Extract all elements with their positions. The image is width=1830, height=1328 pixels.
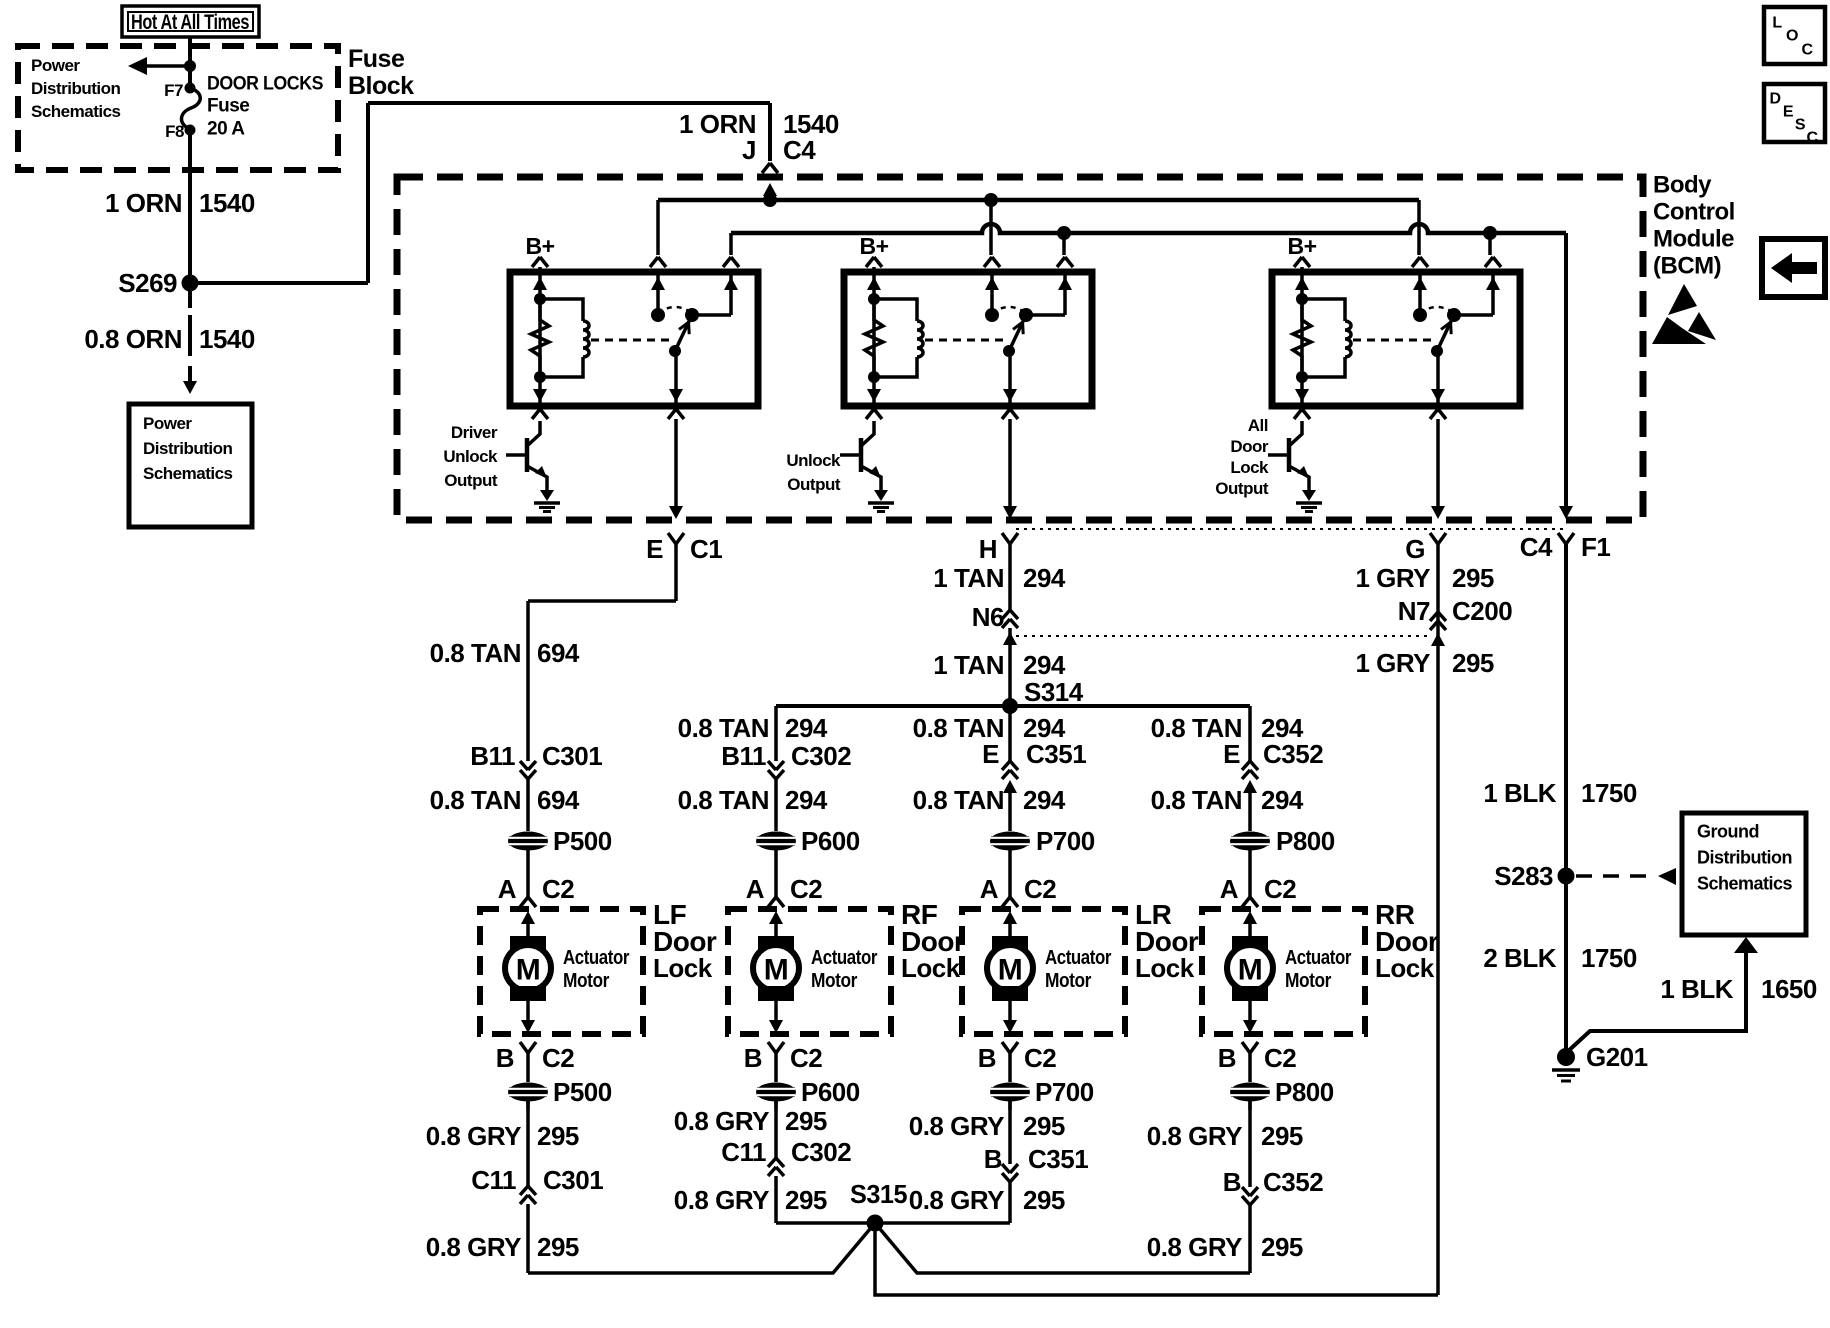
svg-text:Distribution: Distribution bbox=[143, 439, 232, 458]
svg-text:694: 694 bbox=[537, 785, 580, 815]
svg-text:C2: C2 bbox=[1024, 874, 1056, 904]
svg-text:1 BLK: 1 BLK bbox=[1483, 778, 1556, 808]
svg-text:S315: S315 bbox=[850, 1179, 907, 1209]
svg-text:295: 295 bbox=[1023, 1185, 1065, 1215]
svg-text:Schematics: Schematics bbox=[31, 102, 121, 121]
svg-text:295: 295 bbox=[537, 1232, 579, 1262]
svg-text:294: 294 bbox=[1023, 785, 1066, 815]
svg-text:295: 295 bbox=[785, 1106, 827, 1136]
svg-text:C4: C4 bbox=[1520, 532, 1553, 562]
svg-text:C2: C2 bbox=[1024, 1043, 1056, 1073]
svg-text:Motor: Motor bbox=[563, 970, 610, 992]
svg-text:Body: Body bbox=[1653, 171, 1712, 198]
svg-text:L: L bbox=[1772, 15, 1782, 32]
svg-text:Output: Output bbox=[787, 475, 841, 494]
svg-text:0.8 TAN: 0.8 TAN bbox=[678, 785, 769, 815]
svg-text:A: A bbox=[498, 874, 517, 904]
svg-text:294: 294 bbox=[785, 713, 828, 743]
svg-text:B: B bbox=[1218, 1043, 1236, 1073]
svg-text:Actuator: Actuator bbox=[563, 947, 630, 969]
svg-text:N6: N6 bbox=[972, 602, 1004, 632]
svg-text:B: B bbox=[978, 1043, 996, 1073]
svg-text:1 TAN: 1 TAN bbox=[933, 563, 1004, 593]
svg-text:B: B bbox=[984, 1144, 1002, 1174]
svg-text:S283: S283 bbox=[1494, 861, 1553, 891]
svg-text:1 GRY: 1 GRY bbox=[1355, 648, 1430, 678]
svg-text:C302: C302 bbox=[791, 1137, 851, 1167]
svg-text:B11: B11 bbox=[470, 741, 515, 771]
svg-text:C2: C2 bbox=[790, 1043, 822, 1073]
svg-text:Output: Output bbox=[1215, 479, 1269, 498]
svg-text:M: M bbox=[516, 954, 541, 987]
svg-text:A: A bbox=[1220, 874, 1239, 904]
svg-text:Distribution: Distribution bbox=[31, 79, 120, 98]
svg-text:Schematics: Schematics bbox=[1697, 873, 1793, 893]
svg-text:E: E bbox=[646, 534, 663, 564]
svg-text:C11: C11 bbox=[721, 1137, 766, 1167]
svg-text:G: G bbox=[1405, 534, 1425, 564]
svg-text:C2: C2 bbox=[1264, 1043, 1296, 1073]
svg-text:E: E bbox=[1783, 104, 1794, 121]
svg-text:Power: Power bbox=[143, 414, 192, 433]
svg-text:1 TAN: 1 TAN bbox=[933, 650, 1004, 680]
svg-text:Schematics: Schematics bbox=[143, 464, 233, 483]
svg-text:295: 295 bbox=[537, 1121, 579, 1151]
svg-text:P600: P600 bbox=[801, 826, 860, 856]
svg-text:295: 295 bbox=[1452, 563, 1494, 593]
svg-text:E: E bbox=[982, 739, 999, 769]
svg-text:295: 295 bbox=[785, 1185, 827, 1215]
svg-text:Lock: Lock bbox=[1375, 953, 1435, 983]
svg-text:C301: C301 bbox=[542, 741, 602, 771]
svg-text:Unlock: Unlock bbox=[786, 451, 841, 470]
svg-text:P500: P500 bbox=[553, 826, 612, 856]
svg-text:F8: F8 bbox=[165, 122, 184, 141]
svg-text:294: 294 bbox=[785, 785, 828, 815]
svg-text:Motor: Motor bbox=[811, 970, 858, 992]
svg-text:0.8 GRY: 0.8 GRY bbox=[426, 1121, 521, 1151]
svg-text:0.8 TAN: 0.8 TAN bbox=[430, 638, 521, 668]
svg-text:C11: C11 bbox=[471, 1165, 516, 1195]
svg-text:1540: 1540 bbox=[199, 188, 255, 218]
svg-text:0.8 GRY: 0.8 GRY bbox=[909, 1185, 1004, 1215]
svg-text:S269: S269 bbox=[118, 268, 177, 298]
svg-text:0.8 GRY: 0.8 GRY bbox=[909, 1111, 1004, 1141]
svg-text:Motor: Motor bbox=[1285, 970, 1332, 992]
svg-text:C: C bbox=[1806, 130, 1818, 147]
svg-text:C302: C302 bbox=[791, 741, 851, 771]
svg-text:Actuator: Actuator bbox=[1045, 947, 1112, 969]
svg-text:P500: P500 bbox=[553, 1077, 612, 1107]
svg-text:P700: P700 bbox=[1035, 1077, 1094, 1107]
svg-text:0.8 TAN: 0.8 TAN bbox=[913, 785, 1004, 815]
svg-text:A: A bbox=[980, 874, 999, 904]
svg-text:F1: F1 bbox=[1581, 532, 1610, 562]
svg-text:Control: Control bbox=[1653, 198, 1735, 225]
svg-text:Lock: Lock bbox=[1135, 953, 1195, 983]
svg-text:E: E bbox=[1223, 739, 1240, 769]
svg-text:B: B bbox=[1223, 1167, 1241, 1197]
svg-text:Block: Block bbox=[348, 72, 414, 100]
svg-text:0.8 ORN: 0.8 ORN bbox=[84, 324, 182, 354]
svg-text:C2: C2 bbox=[542, 1043, 574, 1073]
svg-text:B+: B+ bbox=[525, 233, 554, 259]
svg-text:295: 295 bbox=[1261, 1121, 1303, 1151]
svg-text:0.8 GRY: 0.8 GRY bbox=[426, 1232, 521, 1262]
svg-text:Fuse: Fuse bbox=[207, 96, 249, 117]
svg-text:C352: C352 bbox=[1263, 739, 1323, 769]
svg-text:0.8 TAN: 0.8 TAN bbox=[1151, 785, 1242, 815]
svg-text:Unlock: Unlock bbox=[443, 447, 498, 466]
svg-text:(BCM): (BCM) bbox=[1653, 252, 1721, 279]
svg-text:694: 694 bbox=[537, 638, 580, 668]
svg-text:F7: F7 bbox=[164, 81, 183, 100]
svg-text:1750: 1750 bbox=[1581, 943, 1637, 973]
svg-text:Output: Output bbox=[444, 471, 498, 490]
svg-text:Lock: Lock bbox=[1230, 458, 1269, 477]
svg-text:20 A: 20 A bbox=[207, 119, 245, 140]
svg-text:P800: P800 bbox=[1275, 1077, 1334, 1107]
svg-text:M: M bbox=[998, 954, 1023, 987]
svg-text:O: O bbox=[1786, 28, 1798, 45]
svg-text:294: 294 bbox=[1261, 785, 1304, 815]
svg-text:M: M bbox=[1238, 954, 1263, 987]
svg-text:C301: C301 bbox=[543, 1165, 603, 1195]
svg-text:G201: G201 bbox=[1586, 1042, 1648, 1072]
svg-text:294: 294 bbox=[1023, 563, 1066, 593]
svg-text:Actuator: Actuator bbox=[1285, 947, 1352, 969]
svg-text:1750: 1750 bbox=[1581, 778, 1637, 808]
svg-text:Hot At All Times: Hot At All Times bbox=[131, 11, 249, 34]
svg-text:0.8 GRY: 0.8 GRY bbox=[674, 1185, 769, 1215]
svg-text:B+: B+ bbox=[1287, 233, 1316, 259]
svg-text:Power: Power bbox=[31, 56, 80, 75]
svg-text:D: D bbox=[1769, 91, 1780, 108]
svg-text:Door: Door bbox=[1230, 437, 1269, 456]
svg-text:Distribution: Distribution bbox=[1697, 847, 1792, 867]
svg-text:H: H bbox=[979, 534, 997, 564]
svg-text:1 BLK: 1 BLK bbox=[1660, 974, 1733, 1004]
svg-text:C351: C351 bbox=[1028, 1144, 1088, 1174]
svg-text:Module: Module bbox=[1653, 225, 1734, 252]
svg-text:295: 295 bbox=[1452, 648, 1494, 678]
svg-text:Actuator: Actuator bbox=[811, 947, 878, 969]
svg-text:Fuse: Fuse bbox=[348, 45, 405, 73]
svg-text:All: All bbox=[1248, 416, 1268, 435]
svg-text:S314: S314 bbox=[1024, 677, 1084, 707]
svg-text:C2: C2 bbox=[542, 874, 574, 904]
svg-text:B11: B11 bbox=[721, 741, 766, 771]
svg-text:0.8 TAN: 0.8 TAN bbox=[678, 713, 769, 743]
svg-text:M: M bbox=[764, 954, 789, 987]
svg-text:J: J bbox=[742, 135, 756, 165]
svg-text:C4: C4 bbox=[783, 135, 816, 165]
svg-text:P600: P600 bbox=[801, 1077, 860, 1107]
svg-text:Ground: Ground bbox=[1697, 821, 1759, 841]
svg-text:C352: C352 bbox=[1263, 1167, 1323, 1197]
svg-text:1 ORN: 1 ORN bbox=[105, 188, 182, 218]
svg-text:Motor: Motor bbox=[1045, 970, 1092, 992]
svg-text:294: 294 bbox=[1023, 650, 1066, 680]
svg-text:0.8 GRY: 0.8 GRY bbox=[1147, 1121, 1242, 1151]
svg-text:B+: B+ bbox=[859, 233, 888, 259]
svg-text:0.8 TAN: 0.8 TAN bbox=[430, 785, 521, 815]
svg-text:295: 295 bbox=[1261, 1232, 1303, 1262]
svg-text:B: B bbox=[744, 1043, 762, 1073]
svg-text:C2: C2 bbox=[1264, 874, 1296, 904]
svg-text:295: 295 bbox=[1023, 1111, 1065, 1141]
svg-text:DOOR LOCKS: DOOR LOCKS bbox=[207, 74, 323, 95]
svg-text:C1: C1 bbox=[690, 534, 722, 564]
svg-text:P700: P700 bbox=[1036, 826, 1095, 856]
svg-text:P800: P800 bbox=[1276, 826, 1335, 856]
svg-text:Lock: Lock bbox=[653, 953, 713, 983]
svg-text:2 BLK: 2 BLK bbox=[1483, 943, 1556, 973]
svg-text:B: B bbox=[496, 1043, 514, 1073]
svg-text:C200: C200 bbox=[1452, 596, 1512, 626]
svg-text:1540: 1540 bbox=[199, 324, 255, 354]
svg-text:0.8 GRY: 0.8 GRY bbox=[1147, 1232, 1242, 1262]
svg-text:N7: N7 bbox=[1398, 596, 1430, 626]
svg-text:1 GRY: 1 GRY bbox=[1355, 563, 1430, 593]
svg-text:C351: C351 bbox=[1026, 739, 1086, 769]
svg-text:Lock: Lock bbox=[901, 953, 961, 983]
svg-text:0.8 GRY: 0.8 GRY bbox=[674, 1106, 769, 1136]
svg-text:C: C bbox=[1801, 42, 1813, 59]
svg-text:S: S bbox=[1795, 117, 1806, 134]
svg-text:C2: C2 bbox=[790, 874, 822, 904]
svg-text:Driver: Driver bbox=[451, 423, 498, 442]
svg-text:A: A bbox=[746, 874, 765, 904]
svg-text:1650: 1650 bbox=[1761, 974, 1817, 1004]
